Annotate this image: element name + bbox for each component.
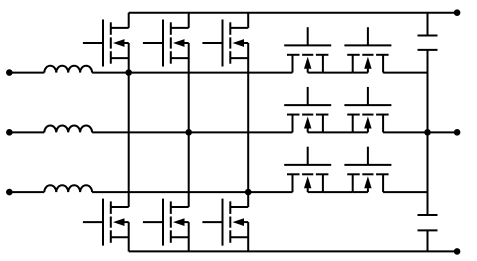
transistor Q11: [284, 147, 331, 192]
wire common source link row 1: [323, 72, 353, 74]
top DC+ rail wire: [129, 12, 457, 14]
transistor Q7: [284, 27, 331, 72]
transistor Q6: [202, 199, 248, 246]
transistor Q5: [143, 199, 189, 246]
wire row 2 to neutral rail: [383, 131, 427, 133]
wire Q6 source to DC- rail: [247, 222, 249, 251]
transistor Q2: [143, 20, 189, 67]
wire common source link row 2: [323, 131, 353, 133]
transistor Q1: [83, 20, 129, 67]
transistor Q3: [202, 20, 248, 67]
wire Q5 source to DC- rail: [188, 222, 190, 251]
transistor Q4: [83, 199, 129, 246]
node phase C junction: [245, 189, 252, 196]
wire neutral output: [428, 131, 458, 133]
wire DC+ rail to capacitor C1: [427, 13, 429, 36]
node DC+ output terminal: [454, 9, 461, 16]
wire common source link row 3: [323, 191, 353, 193]
wire phase B line: [92, 131, 292, 133]
wire capacitor C2 to DC- rail: [427, 230, 429, 251]
wire Q2 drain to DC+ rail: [188, 13, 190, 28]
wire Q2 source down to phase B and Q5 drain: [188, 43, 190, 207]
wire phase A to inductor: [9, 72, 44, 74]
inductor L1: [44, 66, 92, 73]
transistor Q9: [284, 87, 331, 132]
inductor L3: [44, 185, 92, 192]
node phase A junction: [125, 69, 132, 76]
transistor Q8: [344, 27, 391, 72]
wire phase C line: [92, 191, 292, 193]
transistor Q10: [344, 87, 391, 132]
wire neutral rail vertical: [427, 50, 429, 215]
node phase C input terminal: [6, 189, 13, 196]
node neutral output terminal: [454, 129, 461, 136]
transistor Q12: [344, 147, 391, 192]
node phase A input terminal: [6, 69, 13, 76]
wire phase A line: [92, 72, 292, 74]
wire phase C to inductor: [9, 191, 44, 193]
bottom DC- rail wire: [129, 250, 457, 252]
wire Q4 source to DC- rail: [128, 222, 130, 251]
capacitor C1: [418, 36, 438, 50]
node phase B junction: [185, 129, 192, 136]
inductor L2: [44, 126, 92, 133]
wire Q3 source down to phase C and Q6 drain: [247, 43, 249, 207]
capacitor C2: [418, 215, 438, 230]
wire row 1 to neutral rail: [383, 72, 427, 74]
wire row 3 to neutral rail: [383, 191, 427, 193]
wire phase B to inductor: [9, 131, 44, 133]
wire Q1 source down to phase A and Q4 drain: [128, 43, 130, 207]
wire Q3 drain to DC+ rail: [247, 13, 249, 28]
node neutral rail junction: [424, 129, 431, 136]
node DC- output terminal: [454, 248, 461, 255]
wire Q1 drain to DC+ rail: [128, 13, 130, 28]
node phase B input terminal: [6, 129, 13, 136]
